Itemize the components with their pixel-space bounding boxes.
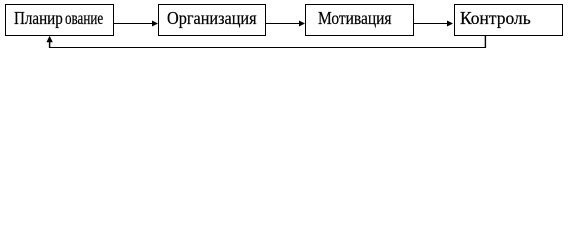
feedback wire up into Планирование <box>49 40 51 48</box>
arrow Мотивация to Контроль <box>414 21 453 27</box>
label Контроль <box>460 10 531 28</box>
box Мотивация <box>305 4 414 36</box>
feedback arrowhead into Планирование <box>46 36 52 42</box>
label Планирование <box>14 10 63 28</box>
arrow Планирование to Организация <box>114 21 158 27</box>
label Организация <box>167 10 257 28</box>
arrow Организация to Мотивация <box>266 21 305 27</box>
label Мотивация <box>318 10 392 28</box>
box Организация <box>158 4 266 36</box>
box Планирование <box>5 4 114 36</box>
box Контроль <box>454 4 563 36</box>
feedback wire down from Контроль <box>484 36 486 48</box>
feedback wire horizontal <box>49 47 486 49</box>
